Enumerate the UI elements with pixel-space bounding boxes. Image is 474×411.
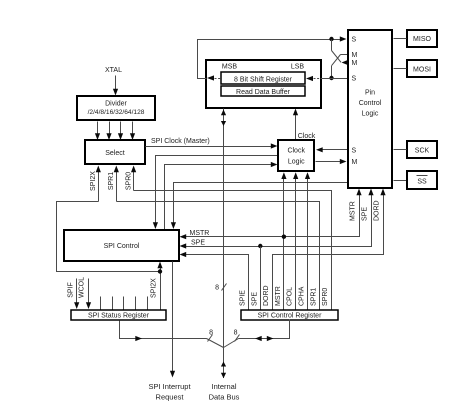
svg-text:Clock: Clock [287,148,305,155]
svg-text:SPI Control Register: SPI Control Register [258,313,322,320]
wire control register to bus [224,320,290,348]
svg-text:MOSI: MOSI [413,67,431,74]
wire cross diagonal to upper M [332,55,349,66]
wire CPOL riser [293,172,298,309]
wire SPI clock master to clock logic [146,143,278,148]
MISO box [407,30,437,47]
label Internal Data Bus [209,382,240,402]
wire clock logic M to pin control [316,159,347,164]
bus slash upper [222,284,227,291]
wire XTAL to Divider [113,76,118,96]
label SPI Interrupt Request [148,382,191,402]
select box [85,140,145,164]
svg-text:SPR1: SPR1 [108,172,115,190]
wire divider to select 1 [95,122,100,141]
svg-text:Read Data Buffer: Read Data Buffer [236,89,291,96]
SS box [407,171,437,189]
wire WCOL [86,279,91,310]
svg-text:Logic: Logic [362,111,379,118]
svg-text:SPR1: SPR1 [310,288,317,306]
wire SPI2X into select [96,166,101,202]
wire SPR0 run [134,191,332,310]
status register tick 3 [123,297,125,310]
8 bit shift register box [221,72,305,84]
svg-text:SPI Clock (Master): SPI Clock (Master) [151,138,210,145]
svg-text:SS: SS [417,179,427,186]
wire cross diagonal to lower M [332,51,349,66]
bus slash left [208,335,213,342]
svg-text:SPI2X: SPI2X [151,278,158,298]
svg-text:MSTR: MSTR [190,230,210,237]
arrow MSB out (dashed) [207,75,222,80]
svg-text:SPR0: SPR0 [322,288,329,306]
svg-text:CPOL: CPOL [287,287,294,306]
wire cross lower vertical [331,66,333,79]
svg-text:SPI Interrupt: SPI Interrupt [148,382,191,391]
SPI control box [64,230,179,261]
svg-text:M: M [352,159,358,166]
junction SPI2X [158,269,162,273]
svg-text:Data Bus: Data Bus [209,392,240,401]
svg-text:MISO: MISO [413,36,431,43]
SPI status register box [71,310,166,320]
svg-text:WCOL: WCOL [79,277,86,298]
svg-text:SPI2X: SPI2X [90,171,97,191]
svg-text:SPR0: SPR0 [125,172,132,190]
svg-text:SPI Control: SPI Control [104,243,140,250]
wire SPI interrupt request [170,262,175,378]
SCK box [407,141,437,158]
svg-text:SPE: SPE [251,292,258,306]
svg-text:Internal: Internal [211,382,236,391]
svg-text:SPIE: SPIE [240,290,247,306]
svg-text:LSB: LSB [291,64,305,71]
wire SPE bit riser [260,247,262,310]
wire MSTR bit riser [281,172,286,309]
status register tick 2 [112,297,114,310]
svg-text:8: 8 [209,330,213,337]
SPI control register box [241,310,338,320]
wire SPI2X loop [57,202,161,272]
wire bus merge stub [223,348,225,379]
wire divider to select 4 [130,122,135,141]
svg-text:8: 8 [234,330,238,337]
svg-text:Logic: Logic [288,159,305,166]
junction top S [329,37,333,41]
wire SPI control to clock logic [165,162,278,230]
svg-text:S: S [352,147,357,154]
wire to SS [394,180,407,182]
svg-text:Request: Request [156,392,185,401]
wire SPI2X riser to SPI Control [157,262,162,310]
pin control logic box [348,30,392,188]
junction second S [329,76,333,80]
svg-text:Control: Control [359,100,382,107]
svg-text:/2/4/8/16/32/64/128: /2/4/8/16/32/64/128 [88,109,145,116]
svg-text:SPE: SPE [191,239,205,246]
svg-text:8 Bit Shift Register: 8 Bit Shift Register [234,76,293,83]
svg-text:CPHA: CPHA [299,286,306,306]
svg-text:Clock: Clock [298,133,316,140]
read data buffer box [221,86,305,96]
status register tick 1 [100,297,102,310]
wire SPIE to SPI control [180,252,249,310]
arrow LSB in (dashed) [306,76,332,81]
junction SPE [258,244,262,248]
svg-text:SPI Status Register: SPI Status Register [88,313,150,320]
outer shift register box [206,60,321,108]
wire MSTR [180,189,362,240]
svg-text:XTAL: XTAL [105,67,122,74]
svg-text:M: M [352,52,358,59]
svg-text:S: S [352,76,357,83]
svg-text:MSTR: MSTR [275,286,282,306]
wire SPR0 into select [131,166,136,191]
status register tick 5 [147,297,149,310]
clock logic box [278,140,314,171]
divider box [77,96,155,120]
svg-text:MSTR: MSTR [350,201,357,221]
wire clock logic to SPI control top [153,156,278,230]
wire SPE [180,189,374,249]
wire SPIF [74,279,79,310]
wire status register to bus [120,321,224,348]
svg-text:SPIF: SPIF [68,282,75,298]
svg-text:S: S [352,37,357,44]
bus slash right [235,335,240,342]
wire DORD to pin control [273,189,386,310]
MOSI box [407,60,437,77]
wire divider to select 2 [106,122,111,141]
svg-text:M: M [352,60,358,67]
wire to SCK [394,149,407,151]
svg-text:Divider: Divider [105,101,127,108]
svg-text:SCK: SCK [415,148,430,155]
wire divider to select 3 [118,122,123,141]
svg-text:Select: Select [105,150,125,157]
svg-text:DORD: DORD [263,285,270,306]
wire pin control S to clock logic [316,147,348,152]
wire internal data bus arrow [221,362,226,379]
svg-text:8: 8 [215,285,219,292]
junction MSTR [282,235,286,239]
wire clock to shift register [293,109,298,141]
wire to MISO [394,38,407,40]
wire CPHA riser [305,172,310,309]
svg-text:Pin: Pin [365,90,375,97]
svg-text:DORD: DORD [374,200,381,221]
wire second S to pin control [332,78,348,80]
wire SPR1 run [117,202,320,310]
wire pin control to SPI control top [171,183,348,230]
wire MSB loop to pin control S [198,36,347,78]
status register tick 4 [135,297,137,310]
svg-text:SPE: SPE [362,207,369,221]
svg-text:MSB: MSB [222,64,238,71]
wire cross upper vertical [331,40,333,51]
wire internal data bus vertical [221,109,226,348]
wire to MOSI [394,68,407,70]
wire SPR1 into select [114,166,119,202]
